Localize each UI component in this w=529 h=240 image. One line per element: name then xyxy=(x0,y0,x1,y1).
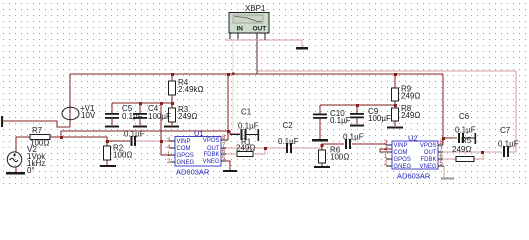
capacitor C9 xyxy=(350,113,364,115)
svg-text:VNEG: VNEG xyxy=(202,159,219,165)
U1 pin 1 GPOS xyxy=(170,154,175,156)
U1 pin 8 VPOS xyxy=(221,139,228,141)
wire U2 FDBK to R5 xyxy=(443,158,456,160)
wire C10 top stem xyxy=(319,105,321,114)
U2 pin 2 GNEG xyxy=(386,165,392,167)
U1 pin 5 VNEG xyxy=(221,160,226,162)
ground below R3 xyxy=(164,126,179,128)
ground below V2 xyxy=(6,172,25,175)
wire U2 OUT to output node xyxy=(443,151,483,153)
svg-text:AD603AR: AD603AR xyxy=(397,172,431,181)
source V1 xyxy=(62,107,79,119)
svg-text:C1: C1 xyxy=(241,108,252,117)
svg-text:0.1µF: 0.1µF xyxy=(124,130,145,139)
wire interstage node jog xyxy=(322,144,344,150)
wire rail down to U1 VPOS pin 8 xyxy=(227,74,229,140)
U1 pin 6 FDBK xyxy=(221,153,226,155)
U2 pin 7 OUT xyxy=(438,151,443,153)
svg-text:COM: COM xyxy=(394,150,408,156)
wire output node to C7 xyxy=(483,151,502,153)
svg-text:C2: C2 xyxy=(283,121,294,130)
wire U1 OUT to C2 xyxy=(221,147,286,149)
wire R1 to OUT node xyxy=(254,148,265,154)
svg-text:0.1µF: 0.1µF xyxy=(343,133,364,142)
resistor R8 xyxy=(392,108,399,121)
svg-text:U2: U2 xyxy=(408,134,418,143)
ground below R8 xyxy=(387,127,403,129)
svg-text:R7: R7 xyxy=(32,126,43,135)
resistor R7 xyxy=(30,135,50,140)
resistor R5 xyxy=(456,157,474,162)
wire U2 COM stub xyxy=(380,149,392,152)
svg-text:FDBK: FDBK xyxy=(420,157,436,163)
svg-text:249Ω: 249Ω xyxy=(236,144,255,153)
svg-text:249Ω: 249Ω xyxy=(178,112,197,121)
wire V2 bottom to ground xyxy=(15,167,17,172)
svg-text:10V: 10V xyxy=(81,111,96,120)
svg-text:GPOS: GPOS xyxy=(177,153,194,159)
svg-text:C6: C6 xyxy=(459,112,470,121)
wire rail to R9 top xyxy=(394,74,396,88)
svg-text:249Ω: 249Ω xyxy=(401,92,420,101)
wire R2 bottom to ground xyxy=(106,160,108,165)
svg-text:VINP: VINP xyxy=(177,139,191,145)
U2 pin 1 GPOS xyxy=(386,158,392,160)
svg-text:OUT: OUT xyxy=(424,150,437,156)
node junction dots xyxy=(60,73,484,155)
capacitor C8 input coupling xyxy=(131,136,133,146)
svg-text:100µF: 100µF xyxy=(368,114,391,123)
wire XBP1 IN+ probe down to input line xyxy=(232,41,234,131)
U2 pin 4 COM xyxy=(386,151,392,153)
ground U2 VNEG xyxy=(441,178,454,180)
wire C5 top stem xyxy=(111,103,113,113)
wire rail down to U2 VPOS pin 8 xyxy=(442,74,444,145)
svg-text:AD603AR: AD603AR xyxy=(176,168,210,177)
capacitor C10 xyxy=(313,114,327,116)
svg-text:VPOS: VPOS xyxy=(203,138,220,144)
svg-text:249Ω: 249Ω xyxy=(452,145,471,154)
wire output vertical to bode rail xyxy=(515,71,517,152)
U1 pin 7 OUT xyxy=(221,147,226,149)
svg-text:GPOS: GPOS xyxy=(394,157,411,163)
svg-text:GNEG: GNEG xyxy=(177,160,195,166)
U1 pin 4 COM xyxy=(170,147,175,149)
wire C1 right lead xyxy=(246,134,258,136)
wire XBP1 IN ground link xyxy=(225,40,302,47)
ground below R6 xyxy=(314,166,330,168)
XBP1 pin IN+ xyxy=(229,33,231,39)
wire input node to C8 xyxy=(107,140,130,142)
resistor R3 xyxy=(169,108,176,122)
op-amp U1 AD603AR xyxy=(167,129,228,177)
resistor R2 xyxy=(104,146,111,160)
svg-text:100µF: 100µF xyxy=(148,112,171,121)
wire XBP1 OUT+ down xyxy=(256,39,258,74)
wire C9 top stem xyxy=(356,105,358,113)
node C6 right stub bar xyxy=(475,133,477,144)
wire +10V supply rail xyxy=(70,73,443,75)
ground U1 VNEG xyxy=(223,170,237,172)
wire R3 bottom to ground xyxy=(171,122,173,125)
wire divider tap to U1 GPOS xyxy=(161,103,175,155)
wire C6 left lead xyxy=(443,137,457,139)
svg-text:VINP: VINP xyxy=(394,143,408,149)
ground below R2 xyxy=(100,165,116,167)
wire C3 to U2 VINP xyxy=(352,144,392,145)
wire U2 VNEG down xyxy=(443,166,445,178)
wire decoupling cap top bus xyxy=(112,102,172,104)
U2 pin 8 VPOS xyxy=(438,144,443,146)
wire bode OUT probe rail xyxy=(257,70,516,72)
wire rail to R4 top xyxy=(171,74,173,81)
wire R5 to output node xyxy=(474,152,483,159)
capacitor C4 xyxy=(133,113,147,115)
wire R4 bottom to R3 top xyxy=(171,95,173,108)
capacitor C1 xyxy=(241,129,243,140)
node C1 right stub bar xyxy=(258,129,260,141)
svg-text:100Ω: 100Ω xyxy=(30,139,49,148)
svg-text:0.1µF: 0.1µF xyxy=(238,122,259,131)
resistor R1 xyxy=(237,152,253,157)
U1 pin 2 GNEG xyxy=(170,161,175,163)
svg-text:0.1µF: 0.1µF xyxy=(498,140,519,149)
ground XBP1 xyxy=(296,47,308,50)
wire U1 VNEG to ground xyxy=(221,161,230,170)
svg-text:100Ω: 100Ω xyxy=(330,153,349,162)
wire C10 bottom stem to ground xyxy=(319,118,321,139)
wire input tap up and across to C1 xyxy=(61,131,240,137)
wire C8 to U1 VINP xyxy=(136,140,175,142)
svg-text:0.1µF: 0.1µF xyxy=(330,116,351,125)
wire R9 bottom to R8 top xyxy=(394,101,396,108)
svg-text:U1: U1 xyxy=(194,129,204,138)
XBP1 pin IN- xyxy=(237,33,239,39)
resistor R9 xyxy=(392,88,399,101)
U2 pin 6 FDBK xyxy=(438,158,443,160)
source V2 xyxy=(7,152,21,167)
svg-text:100Ω: 100Ω xyxy=(113,151,132,160)
wire C6 right lead xyxy=(463,137,475,139)
U1 pin 3 VINP xyxy=(170,140,175,142)
wire V1 positive terminal up to rail xyxy=(69,74,71,127)
wire R7 right to input node xyxy=(50,137,107,141)
wire C4 top stem xyxy=(139,103,141,113)
capacitor C2 xyxy=(286,143,288,153)
wire C9 bottom stem to ground xyxy=(356,118,358,124)
wire C1 left lead xyxy=(230,134,240,136)
svg-text:C7: C7 xyxy=(500,126,511,135)
wire R6 bottom to ground xyxy=(321,163,323,166)
svg-text:0.1µF: 0.1µF xyxy=(455,126,476,135)
wire C7 right lead xyxy=(508,151,516,153)
wire R2 top xyxy=(106,141,108,146)
svg-text:COM: COM xyxy=(177,146,191,152)
ground left edge (V1 return) xyxy=(1,116,3,127)
wire C2 right to interstage node xyxy=(292,147,322,149)
capacitor C7 xyxy=(503,146,505,157)
svg-text:0.1µF: 0.1µF xyxy=(278,137,299,146)
XBP1 pin OUT- xyxy=(264,33,266,40)
wire U1 FDBK to R1 xyxy=(221,153,236,155)
U2 pin 5 VNEG xyxy=(438,165,444,167)
wire stage2 decoupling top bus xyxy=(320,104,395,106)
svg-text:XBP1: XBP1 xyxy=(245,4,266,13)
ground below C10 xyxy=(312,139,328,142)
svg-text:FDBK: FDBK xyxy=(203,152,219,158)
svg-text:VPOS: VPOS xyxy=(420,143,437,149)
svg-text:GNEG: GNEG xyxy=(394,164,412,170)
capacitor C5 xyxy=(105,113,119,115)
wire V2 to R7 left xyxy=(16,137,30,152)
svg-text:0°: 0° xyxy=(27,166,35,175)
ground below C9 xyxy=(350,125,364,127)
XBP1 pin OUT+ xyxy=(256,33,258,39)
U2 pin 3 VINP xyxy=(386,144,392,146)
svg-text:2.49kΩ: 2.49kΩ xyxy=(178,85,204,94)
svg-text:OUT: OUT xyxy=(253,26,267,33)
resistor R4 xyxy=(169,81,176,95)
capacitor C3 interstage coupling xyxy=(345,139,347,149)
svg-text:IN: IN xyxy=(237,26,244,33)
resistor R6 xyxy=(319,150,326,163)
svg-text:VNEG: VNEG xyxy=(419,164,436,170)
capacitor C6 xyxy=(458,133,460,143)
wire V1 negative to left-edge ground xyxy=(3,121,70,127)
op-amp U2 AD603AR xyxy=(384,134,444,181)
wire R8 bottom to ground xyxy=(394,121,396,126)
svg-text:249Ω: 249Ω xyxy=(401,111,420,120)
